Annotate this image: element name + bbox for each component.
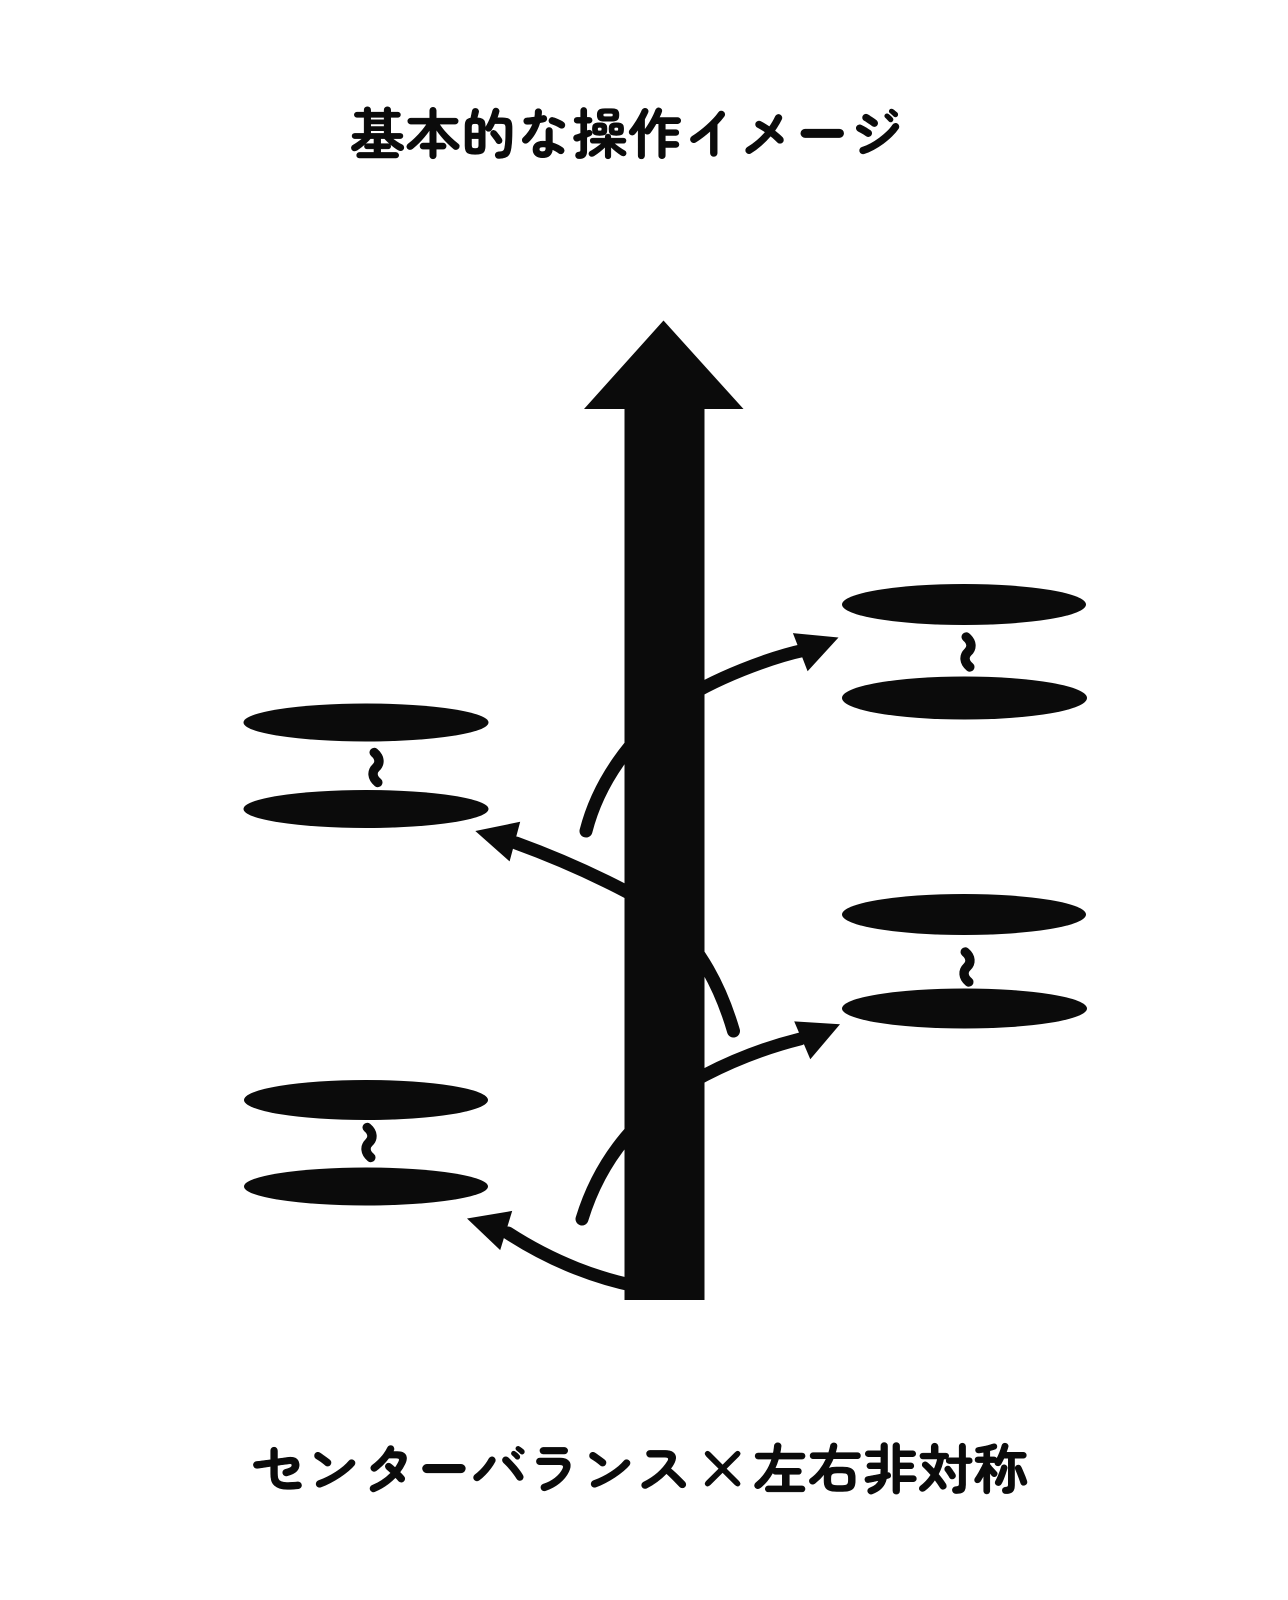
lower-right pair: top disc [842, 894, 1086, 935]
caption glyph 'ー' [423, 1465, 464, 1472]
upper-right pair: squiggle [965, 637, 971, 667]
caption glyph 'セ' [253, 1447, 301, 1489]
bottom-left pair: squiggle [366, 1128, 372, 1158]
curved arrow to middle-left pair: head [475, 822, 520, 862]
upper-right pair: top disc [842, 584, 1086, 625]
bottom-left pair: bottom disc [244, 1168, 488, 1206]
title glyph 'メ' [746, 114, 784, 153]
caption glyph '対' [919, 1443, 972, 1493]
caption glyph '×' [705, 1451, 740, 1486]
curved arrow to lower-right pair: tail [582, 1039, 800, 1219]
curved arrow to upper-right pair: tail [586, 650, 805, 831]
title glyph 'ジ' [856, 109, 899, 154]
title glyph '本' [407, 107, 459, 159]
caption glyph '左' [755, 1443, 806, 1492]
caption glyph 'ン' [314, 1452, 355, 1487]
title glyph '基' [351, 107, 403, 158]
main vertical arrow shaft [625, 400, 705, 1300]
lower-right pair: squiggle [964, 952, 970, 982]
middle-left pair: bottom disc [244, 790, 489, 828]
caption glyph 'ン' [589, 1452, 630, 1487]
lower-right pair: bottom disc [842, 989, 1087, 1029]
curved arrow to middle-left pair: tail [516, 843, 734, 1031]
curved arrow to upper-right pair: head [793, 633, 839, 671]
caption glyph '右' [809, 1443, 860, 1492]
title glyph '作' [629, 108, 681, 159]
caption glyph 'ス' [642, 1450, 686, 1488]
main vertical arrow head [584, 321, 744, 410]
bottom-left pair: top disc [244, 1080, 488, 1120]
middle-left pair: squiggle [373, 753, 379, 783]
caption glyph '非' [865, 1443, 916, 1495]
title glyph '操' [574, 107, 627, 158]
caption glyph 'タ' [370, 1446, 407, 1492]
curved arrow to bottom-left pair: tail [508, 1233, 668, 1291]
caption glyph 'バ' [474, 1446, 525, 1481]
curved arrow to bottom-left pair: head [467, 1211, 512, 1250]
caption glyph 'ラ' [536, 1447, 570, 1490]
curved arrow to lower-right pair: head [794, 1021, 840, 1059]
title glyph 'イ' [690, 111, 724, 157]
title glyph '的' [465, 108, 512, 158]
caption glyph '称' [975, 1443, 1027, 1494]
upper-right pair: bottom disc [842, 677, 1087, 720]
middle-left pair: top disc [244, 704, 489, 742]
title glyph 'な' [522, 109, 565, 158]
title glyph 'ー' [802, 130, 843, 137]
